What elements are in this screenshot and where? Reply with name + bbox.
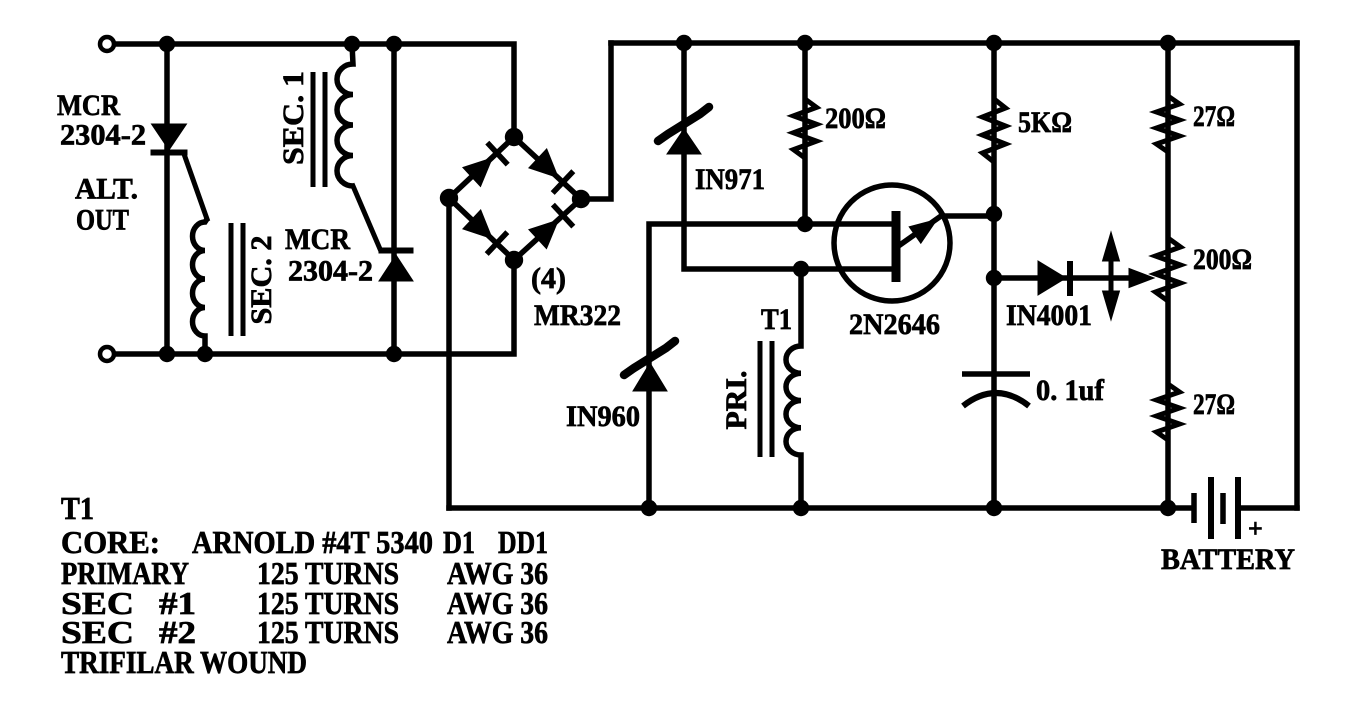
wire: battery positive lead xyxy=(1241,505,1297,511)
node: top rail / SEC.1 xyxy=(344,36,360,52)
transistor Q1 2N2646 circle xyxy=(834,185,950,301)
inductor SEC.2 winding xyxy=(193,219,208,354)
potentiometer wiper arrow xyxy=(1129,269,1154,288)
svg-text:SEC. 2: SEC. 2 xyxy=(245,236,278,325)
svg-text:0. 1uf: 0. 1uf xyxy=(1036,374,1105,407)
node: bottom rail / capacitor xyxy=(986,500,1002,516)
transistor Q1 emitter xyxy=(897,216,994,247)
node: top rail / IN971 xyxy=(676,35,692,51)
svg-text:2304-2: 2304-2 xyxy=(60,119,146,152)
node: top rail / SCR1 xyxy=(159,36,175,52)
wire: 200 ohm branch xyxy=(802,43,808,224)
wire: SCR2 gate lead xyxy=(353,186,380,249)
wire: bottom rail xyxy=(449,505,1191,511)
node: bridge top corner xyxy=(505,128,523,146)
node: bottom rail / 27 ohm xyxy=(1160,500,1176,516)
diode IN4001 xyxy=(1038,261,1066,295)
diode D3 (bridge lower-left) xyxy=(463,210,492,239)
wire: SCR2 branch vertical xyxy=(391,44,397,354)
wire: bottom alternator wire xyxy=(107,260,514,354)
node: bottom wire / SCR1 xyxy=(159,346,175,362)
wire: bridge negative lead to bottom rail xyxy=(446,198,452,508)
svg-text:MCR: MCR xyxy=(57,89,120,122)
resistor 5K xyxy=(983,99,1006,162)
svg-text:5KΩ: 5KΩ xyxy=(1018,106,1072,139)
core lines SEC.2 xyxy=(229,223,234,336)
node: bridge left corner xyxy=(440,189,458,207)
bridge rectifier MR322 diamond xyxy=(449,137,581,260)
transistor Q1 base bar xyxy=(892,211,901,282)
svg-text:2304-2: 2304-2 xyxy=(288,255,373,288)
svg-text:T1: T1 xyxy=(61,490,94,526)
wire: SCR1 branch vertical xyxy=(164,44,170,354)
wire: bridge positive lead xyxy=(581,43,611,199)
resistor 200 ohm xyxy=(794,99,817,158)
svg-text:MR322: MR322 xyxy=(534,299,621,332)
battery cell plates xyxy=(1191,493,1197,523)
inductor T1 primary winding xyxy=(786,269,801,508)
node: top rail / 200 ohm xyxy=(797,35,813,51)
node: bottom wire / SEC.2 xyxy=(197,346,213,362)
node: bottom rail / IN960 xyxy=(641,500,657,516)
wire: right resistor column xyxy=(1165,43,1171,508)
SCR MCR 2304-2 (upper) xyxy=(152,124,187,150)
svg-text:BATTERY: BATTERY xyxy=(1161,543,1295,576)
terminal: alternator output bottom xyxy=(100,347,114,361)
svg-text:200Ω: 200Ω xyxy=(1193,243,1252,276)
wire: 5K branch xyxy=(991,43,997,372)
svg-text:AWG 36: AWG 36 xyxy=(447,614,548,650)
node: top rail / 27 ohm xyxy=(1160,35,1176,51)
resistor 27 ohm upper xyxy=(1157,96,1180,152)
svg-text:IN971: IN971 xyxy=(695,163,765,196)
wire: capacitor bottom lead xyxy=(991,379,997,508)
diode D2 (bridge upper-right) xyxy=(529,149,558,178)
node: bottom rail / T1 xyxy=(793,500,809,516)
core lines SEC.1 xyxy=(311,72,316,187)
diode D4 (bridge lower-right) xyxy=(529,220,558,249)
resistor 27 ohm lower xyxy=(1157,384,1180,440)
node: bridge right corner xyxy=(572,190,590,208)
node: bottom wire / SCR2 xyxy=(386,346,402,362)
svg-text:IN4001: IN4001 xyxy=(1006,299,1092,332)
wire: top rail right segment xyxy=(611,40,1297,46)
node: emitter to 5K xyxy=(986,206,1002,222)
svg-text:OUT: OUT xyxy=(76,204,129,237)
svg-text:PRI.: PRI. xyxy=(720,371,753,430)
wire: SCR1 gate lead xyxy=(184,154,207,219)
terminal: alternator output top xyxy=(100,37,114,51)
svg-text:T1: T1 xyxy=(761,303,792,336)
svg-text:TRIFILAR WOUND: TRIFILAR WOUND xyxy=(61,644,307,680)
node: IN4001 tap xyxy=(986,270,1002,286)
svg-text:27Ω: 27Ω xyxy=(1193,100,1235,133)
node: top rail / 5K xyxy=(986,35,1002,51)
potentiometer 200 ohm xyxy=(1156,238,1181,301)
node: top rail / SCR2 xyxy=(386,36,402,52)
zener diode IN960 xyxy=(633,363,667,391)
svg-text:SEC. 1: SEC. 1 xyxy=(277,71,310,165)
capacitor 0.1uf top plate xyxy=(962,371,1030,377)
wire: upper interbase line and IN960 branch xyxy=(649,224,896,508)
wire: IN971 branch and lower interbase line xyxy=(684,43,896,269)
capacitor 0.1uf curved plate xyxy=(963,393,1029,406)
zener diode IN971 xyxy=(667,129,701,154)
adjustment arrow vertical xyxy=(1109,250,1114,306)
svg-text:+: + xyxy=(1248,514,1263,543)
node: bridge bottom corner xyxy=(505,251,523,269)
svg-text:IN960: IN960 xyxy=(566,400,640,433)
svg-text:2N2646: 2N2646 xyxy=(849,308,940,341)
node: T1 primary tap xyxy=(793,261,809,277)
wire: right edge vertical xyxy=(1294,43,1300,508)
SCR MCR 2304-2 (lower) xyxy=(379,248,414,254)
svg-text:200Ω: 200Ω xyxy=(825,102,886,135)
node: 200 ohm to interbase line xyxy=(797,216,813,232)
core lines T1 xyxy=(758,341,763,457)
svg-text:ALT.: ALT. xyxy=(75,173,138,206)
svg-text:MCR: MCR xyxy=(285,223,350,256)
wire: IN4001 wiper line xyxy=(994,275,1131,281)
svg-text:(4): (4) xyxy=(531,262,566,295)
diode D1 (bridge upper-left) xyxy=(463,158,492,187)
wire: top rail left segment xyxy=(107,44,514,137)
inductor SEC.1 winding xyxy=(337,44,353,186)
svg-text:27Ω: 27Ω xyxy=(1193,388,1235,421)
